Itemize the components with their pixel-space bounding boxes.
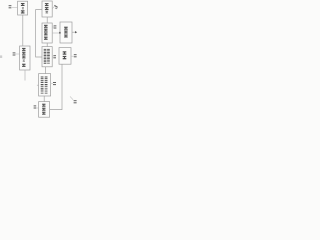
box R1 right row1 (60, 22, 72, 43)
wire leader label8 (36, 107, 38, 109)
wire leader label13 (70, 96, 73, 99)
node label 8 (34, 105, 37, 106)
node label 9 (53, 55, 56, 56)
node label 11 (53, 82, 56, 83)
box B2 top-middle (42, 1, 52, 17)
wire B2 to B3 (46, 17, 48, 23)
node label 13 (74, 100, 77, 101)
wire B5 to B6 (43, 96, 45, 102)
box R2 right row2 (59, 48, 71, 65)
node label 5 (54, 5, 57, 7)
wire B2 left to B4 left (36, 10, 42, 57)
wire leader label14 (12, 6, 18, 8)
wire B4 to B5 (45, 67, 47, 74)
node B5 text (41, 76, 44, 79)
node R2 text (63, 51, 67, 52)
node arrowhead R1 output (75, 31, 77, 33)
node label 6 (54, 25, 57, 26)
wire B5 left tick (37, 84, 39, 86)
box B7 left-column (20, 46, 30, 70)
node label 7 (13, 52, 16, 53)
node label 3 (74, 54, 77, 55)
wire leader label7 (15, 53, 19, 55)
node B7 text (22, 48, 25, 49)
wire leader label3 (71, 55, 74, 57)
box B3 middle (42, 23, 52, 43)
wire R1 output (72, 31, 75, 33)
node B2 text (45, 3, 49, 4)
node label 14 (9, 5, 12, 6)
wire B6 right to R2 (50, 64, 62, 109)
node faint edge mark (0, 55, 2, 58)
node R1 text (64, 27, 68, 28)
wire B3 to R1 (52, 32, 60, 34)
wire B3 to B4 (46, 43, 48, 47)
box B4 (42, 47, 52, 67)
wire leader label11 (51, 83, 53, 85)
box B5 bottom-middle (39, 74, 51, 96)
node B4 text (44, 48, 47, 51)
node B3 text (44, 25, 48, 26)
box B1 top-left (18, 1, 28, 15)
node B1 text (21, 3, 25, 4)
node B6 text (42, 104, 45, 105)
box B6 bottom (39, 102, 50, 118)
node junction R1 left (59, 32, 61, 34)
wire B1 to B7 (22, 15, 24, 46)
wire leader label9 (52, 56, 53, 58)
wire leader label5 (52, 6, 54, 8)
wire leader label6 (52, 26, 53, 28)
wire B7 down stub (24, 70, 26, 81)
